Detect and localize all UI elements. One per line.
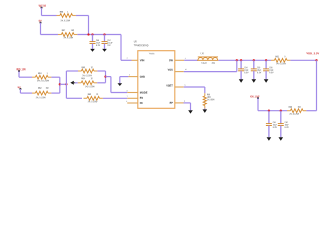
svg-text:R64: R64: [81, 77, 85, 80]
wire R63 row from mid vertical: [66, 70, 78, 72]
pin of net label 5V0: [40, 22, 42, 24]
wire down to MODE row: [110, 77, 112, 93]
capacitor C58: [92, 35, 94, 42]
pin of bottom label: [257, 97, 259, 99]
off-page arrow at R64: [70, 81, 74, 85]
wire inductor to R65: [218, 59, 271, 61]
ground C61: [267, 137, 272, 141]
wire SW to inductor: [184, 59, 198, 61]
riser VOS to output rail: [236, 60, 238, 71]
wire from R62 to R61 drop corner: [51, 92, 59, 94]
resistor R67: [58, 34, 61, 36]
svg-text:L70: L70: [201, 52, 205, 55]
svg-text:NC: NC: [140, 101, 143, 105]
svg-text:1: 1: [67, 11, 68, 14]
ground for C58: [90, 49, 95, 52]
junction on R61 drop: [59, 83, 61, 85]
resistor R61: [32, 76, 35, 78]
svg-text:150: 150: [46, 87, 50, 90]
svg-text:6.3V: 6.3V: [96, 45, 101, 47]
wire VSET: [184, 86, 205, 88]
svg-text:GND: GND: [140, 75, 145, 79]
svg-text:20%: 20%: [212, 63, 215, 65]
capacitor C54: [240, 60, 242, 69]
wire label down: [257, 98, 259, 111]
ground C54: [239, 79, 244, 82]
VOS pin stub: [175, 71, 184, 73]
EN pin stub: [127, 97, 138, 99]
junction at R68 drop: [87, 33, 89, 35]
wire EN row from mid vertical: [66, 97, 82, 99]
wire R66 to corner: [306, 110, 316, 112]
svg-text:16V: 16V: [107, 45, 111, 47]
capacitor C57: [104, 35, 106, 42]
svg-text:2%, 0.125W: 2%, 0.125W: [60, 20, 70, 22]
wire from VIN_5V label down: [41, 8, 43, 16]
junction at mid vertical: [65, 83, 67, 85]
svg-text:MODE: MODE: [140, 91, 148, 95]
junction VOS riser: [236, 59, 238, 61]
svg-text:7: 7: [127, 96, 128, 98]
svg-text:1%, 0.063W: 1%, 0.063W: [207, 99, 215, 101]
resistor R60: [84, 97, 87, 99]
svg-text:3: 3: [129, 74, 130, 76]
wire from R60 to EN pin: [103, 97, 127, 99]
resistor R69 vertical: [204, 93, 206, 96]
junction at C58: [91, 33, 93, 35]
wire VIN rail to IC corner: [77, 34, 121, 36]
wire to VIN pin stub: [121, 59, 132, 61]
wire up to VDD_3.3V node: [316, 60, 318, 110]
svg-text:R61: R61: [38, 72, 42, 75]
svg-text:U5: U5: [134, 40, 137, 43]
svg-text:6.3V: 6.3V: [285, 127, 290, 129]
svg-text:5%, 0.125W: 5%, 0.125W: [276, 63, 286, 65]
op-amp U1 IC U5 TPS62021 body: [138, 51, 175, 109]
svg-text:R62: R62: [38, 87, 42, 90]
wire from 5V0 label down: [40, 23, 42, 35]
VIN pin stub: [132, 59, 138, 61]
svg-text:6.3V: 6.3V: [244, 72, 249, 74]
wire to resistor R61: [19, 76, 32, 78]
svg-text:10: 10: [96, 93, 98, 96]
wire from R68 to corner: [76, 15, 89, 17]
wire to resistor R62: [20, 92, 32, 94]
capacitor C61: [268, 111, 270, 124]
svg-text:150: 150: [71, 29, 75, 32]
svg-text:2%, 0.125W: 2%, 0.125W: [88, 101, 98, 103]
svg-text:6.3V: 6.3V: [257, 72, 262, 74]
svg-text:10: 10: [185, 69, 187, 71]
svg-text:EN: EN: [140, 96, 143, 100]
wire down to VIN rail: [88, 16, 90, 35]
wire bottom row: [258, 110, 287, 112]
svg-text:VDD_1.8V: VDD_1.8V: [16, 67, 26, 71]
svg-text:R68: R68: [60, 11, 64, 14]
inductor L70: [198, 58, 218, 60]
svg-text:5: 5: [184, 85, 185, 87]
EP pin stub: [175, 102, 184, 104]
wire to MODE pin: [111, 92, 127, 94]
svg-text:2%, 0.125W: 2%, 0.125W: [63, 37, 73, 39]
svg-text:VIN: VIN: [140, 58, 145, 62]
wire EP: [184, 102, 191, 104]
wire from R64 to corner: [97, 82, 105, 84]
svg-text:10: 10: [91, 77, 93, 80]
svg-text:VOS: VOS: [168, 68, 173, 72]
svg-text:R66: R66: [289, 106, 293, 109]
resistor R66: [287, 110, 290, 112]
wire VSET down: [204, 87, 206, 93]
GND pin stub: [128, 76, 137, 78]
wire VOS to riser: [184, 71, 237, 73]
svg-text:EP: EP: [170, 101, 173, 105]
SW pin stub: [175, 59, 184, 61]
svg-text:R60: R60: [88, 93, 92, 96]
junction C54: [240, 59, 242, 61]
ground C56: [264, 79, 269, 82]
svg-text:6.3V: 6.3V: [269, 72, 274, 74]
ground for C57: [102, 49, 107, 52]
svg-text:6.3V: 6.3V: [273, 127, 278, 129]
junction C56: [265, 59, 267, 61]
ground EP: [188, 110, 193, 113]
capacitor C62: [280, 111, 282, 124]
wire GND tee to MODE riser: [106, 76, 111, 78]
VSET pin stub: [175, 86, 184, 88]
junction C62: [280, 110, 282, 112]
capacitor C55: [253, 60, 255, 69]
svg-text:3.3uH: 3.3uH: [201, 63, 207, 65]
junction C55: [253, 59, 255, 61]
svg-text:VSET: VSET: [166, 83, 173, 87]
wire R69 to ground: [204, 108, 206, 109]
wire from R61: [51, 76, 59, 78]
svg-text:150: 150: [298, 106, 302, 109]
wire from label down: [19, 89, 21, 93]
wire from GND pin: [120, 76, 129, 78]
capacitor C56: [265, 60, 267, 69]
svg-text:2: 2: [127, 58, 128, 60]
svg-text:R65: R65: [275, 55, 279, 58]
svg-text:2%, 0.125W: 2%, 0.125W: [37, 80, 50, 82]
svg-text:4: 4: [126, 101, 127, 103]
junction at C57: [103, 33, 105, 35]
svg-text:SW: SW: [169, 58, 173, 62]
resistor R68: [57, 15, 60, 17]
wire R65 to VDD_3.3V node: [290, 59, 316, 61]
svg-text:TPS62021: TPS62021: [149, 53, 155, 55]
svg-text:R63: R63: [82, 66, 86, 69]
pin of net label 1V8: [20, 88, 22, 90]
resistor R62: [32, 92, 35, 94]
resistor R64: [78, 82, 81, 84]
pin of net label VDD_1.8V: [18, 70, 20, 72]
wire down from R61 to R62 row: [59, 77, 61, 93]
wire from R63 to corner: [97, 70, 105, 72]
wire down to ground: [119, 77, 121, 84]
ground at GND pin: [118, 83, 123, 86]
svg-text:VDD_3.3V: VDD_3.3V: [306, 51, 319, 55]
ground C62: [279, 137, 284, 141]
junction VDD_3.3V: [315, 59, 317, 61]
svg-text:R67: R67: [62, 29, 66, 32]
wire from VDD_1.8V down: [18, 71, 20, 77]
wire to resistor R67: [41, 34, 59, 36]
svg-text:2%, 0.125W: 2%, 0.125W: [289, 114, 299, 116]
wire arrow to R64: [75, 82, 78, 84]
junction C61: [268, 110, 270, 112]
ground R69: [203, 109, 208, 113]
resistor R65: [271, 59, 274, 61]
svg-text:0: 0: [284, 55, 285, 58]
svg-text:TPS62021DGQ: TPS62021DGQ: [134, 45, 149, 47]
svg-text:2%, 0.125W: 2%, 0.125W: [36, 97, 47, 99]
MODE pin stub: [127, 92, 138, 94]
wire EP down: [190, 103, 192, 110]
pin of net label VIN_5V: [41, 7, 43, 9]
tie wire between verticals: [60, 83, 67, 85]
junction GND tee: [104, 75, 106, 77]
svg-text:2%, 0.125W: 2%, 0.125W: [85, 86, 95, 88]
vertical R63 to R64: [105, 71, 107, 83]
NC pin stub: [127, 102, 138, 104]
svg-text:1: 1: [47, 72, 48, 75]
mid vertical wire: [65, 71, 67, 98]
wire down to VIN pin: [120, 35, 122, 61]
wire to resistor R68: [42, 15, 57, 17]
resistor R63: [78, 70, 81, 72]
ground C55: [252, 79, 257, 82]
